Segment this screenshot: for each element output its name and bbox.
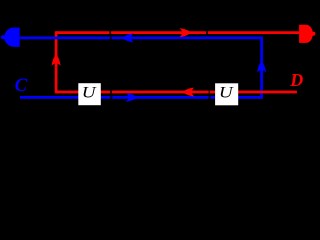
wire joint gap (red bottom, right) (209, 90, 211, 94)
wire joint gap (blue bottom, right) (209, 96, 211, 100)
wire joint gap (blue bottom, left) (110, 96, 112, 100)
wire red top (56, 31, 299, 34)
arrow blue up (right vertical) (257, 61, 266, 72)
svg-text:D: D (289, 70, 303, 90)
wire blue vertical (260, 38, 263, 98)
label U1 (82, 84, 97, 101)
wire blue bottom (20, 96, 262, 99)
detector red (right photodetector) (299, 25, 315, 43)
wire blue top (20, 37, 262, 40)
detector blue (left photodetector) (1, 28, 20, 47)
arrow red left (bottom line) (183, 88, 194, 97)
label U2 (219, 84, 234, 101)
arrow red right (top line) (180, 28, 191, 37)
box U1 (left unitary) (78, 83, 101, 105)
svg-text:U: U (219, 84, 234, 101)
wire joint gap (blue top) (110, 36, 112, 40)
arrow blue left (top line) (122, 33, 133, 42)
arrow red up (left vertical) (52, 55, 61, 66)
arrow blue right (bottom line) (126, 93, 137, 102)
wire joint gap (red top, left) (109, 31, 111, 35)
wire joint gap (red top, right) (206, 31, 208, 35)
wire red bottom (56, 91, 297, 94)
wire red vertical (node C' up-link) (55, 33, 58, 92)
wire joint gap (red bottom, left) (110, 90, 112, 94)
svg-text:U: U (82, 84, 97, 101)
box U2 (right unitary) (215, 83, 238, 105)
svg-text:C: C (15, 76, 28, 96)
